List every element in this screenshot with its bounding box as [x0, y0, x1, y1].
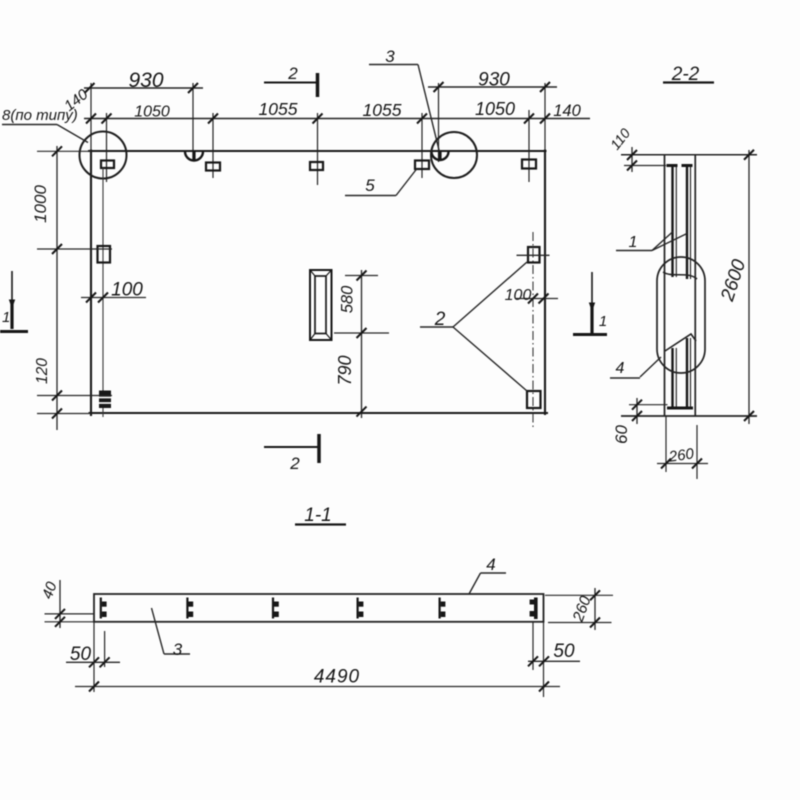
svg-text:580: 580 [339, 285, 357, 313]
svg-text:120: 120 [34, 358, 51, 384]
svg-text:930: 930 [128, 69, 163, 92]
svg-text:4490: 4490 [314, 667, 360, 688]
svg-text:2600: 2600 [717, 257, 750, 305]
svg-text:110: 110 [607, 125, 633, 153]
svg-text:50: 50 [553, 641, 575, 662]
svg-text:5: 5 [365, 176, 375, 195]
svg-text:1000: 1000 [31, 185, 50, 223]
svg-text:1-1: 1-1 [304, 505, 331, 526]
svg-text:100: 100 [505, 287, 532, 304]
svg-text:3: 3 [173, 640, 183, 659]
svg-text:1: 1 [629, 234, 638, 251]
svg-text:3: 3 [385, 47, 395, 66]
svg-text:4: 4 [616, 360, 625, 377]
svg-text:1055: 1055 [259, 99, 298, 119]
svg-text:140: 140 [553, 102, 581, 120]
svg-text:1050: 1050 [134, 104, 170, 121]
svg-text:100: 100 [111, 280, 143, 301]
svg-text:1050: 1050 [475, 99, 515, 119]
svg-text:1: 1 [2, 309, 10, 326]
svg-text:1055: 1055 [363, 100, 402, 120]
svg-text:60: 60 [612, 425, 631, 444]
svg-text:260: 260 [667, 445, 696, 466]
svg-text:4: 4 [486, 555, 495, 574]
svg-text:2: 2 [289, 454, 300, 473]
svg-text:8(по типу): 8(по типу) [2, 107, 78, 124]
svg-text:50: 50 [70, 644, 92, 665]
svg-text:2: 2 [287, 64, 298, 83]
svg-text:1: 1 [599, 313, 607, 330]
svg-text:930: 930 [478, 70, 510, 91]
svg-text:40: 40 [39, 579, 61, 601]
svg-text:2: 2 [434, 309, 446, 330]
svg-text:2-2: 2-2 [671, 64, 700, 85]
svg-text:790: 790 [335, 355, 355, 385]
